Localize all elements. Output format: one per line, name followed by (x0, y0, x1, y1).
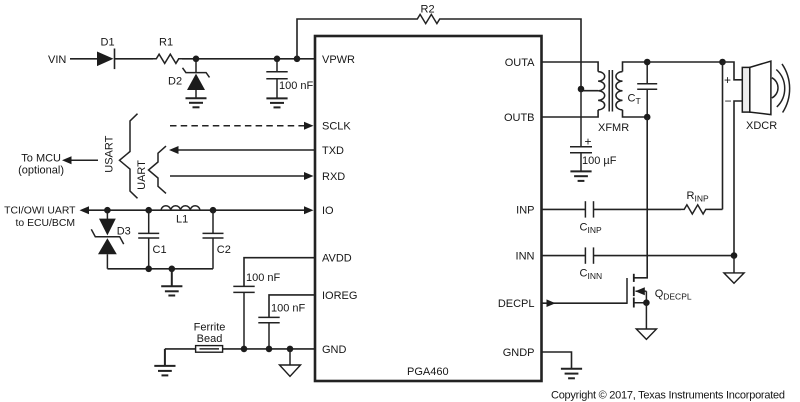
svg-text:VIN: VIN (48, 54, 66, 66)
wire transformer center tap (581, 90, 598, 92)
wire RXD (170, 175, 306, 177)
svg-text:100 nF: 100 nF (246, 272, 281, 284)
wire CINN to minus vertical (594, 255, 735, 257)
capacitor 100nF (AVDD) (233, 286, 254, 349)
capacitor CT (637, 62, 657, 117)
resistor RINP (681, 205, 709, 214)
brace UART (149, 146, 167, 193)
capacitor 100nF (VPWR) (266, 59, 287, 98)
wire CT bottom down to MOSFET drain (634, 117, 647, 278)
svg-text:R2: R2 (421, 4, 435, 16)
svg-text:C1: C1 (153, 244, 167, 256)
svg-text:PGA460: PGA460 (407, 366, 449, 378)
transducer XDCR (742, 61, 771, 115)
arrowhead IO right (304, 206, 314, 214)
ground arrow below INN node (724, 256, 744, 284)
wire To-MCU arrow (71, 159, 98, 161)
svg-text:C2: C2 (217, 244, 231, 256)
node junction CT top (644, 59, 651, 66)
svg-text:100 µF: 100 µF (582, 155, 617, 167)
TVS diode D3 (91, 210, 123, 269)
svg-text:D2: D2 (168, 76, 182, 88)
ground below VPWR 100nF (266, 98, 287, 107)
node junction ground tap (169, 266, 176, 273)
arrowhead IO left (80, 206, 90, 214)
arrowhead To MCU (62, 156, 72, 164)
svg-text:GNDP: GNDP (503, 347, 535, 359)
node junction VPWR riser (294, 56, 301, 63)
node junction INN/minus (731, 252, 738, 259)
arrowhead into SCLK (304, 122, 314, 130)
svg-text:+: + (724, 73, 731, 87)
ground below C1/C2 rail (161, 269, 182, 296)
node junction at R1/D2 (193, 56, 200, 63)
wire R1 to IC VPWR (182, 58, 315, 60)
wire CINP to RINP (594, 208, 682, 210)
svg-text:XDCR: XDCR (746, 120, 777, 132)
ground below 100uF (570, 171, 591, 181)
wire DECPL to gate (542, 302, 628, 304)
node junction 100nF (274, 56, 281, 63)
wire IOREG (269, 295, 315, 318)
wire plus node into XDCR (723, 62, 743, 80)
capacitor C2 (203, 210, 224, 269)
node junction D3 (104, 207, 111, 214)
wire D1 to R1 (115, 58, 154, 60)
wire RINP to plus vertical (709, 208, 723, 210)
wire INN to CINN (542, 255, 586, 257)
svg-text:100 nF: 100 nF (271, 303, 306, 315)
ground arrow below QDECPL source (636, 303, 656, 340)
wire GND rail (165, 348, 315, 350)
inductor L1 (161, 206, 200, 210)
svg-text:L1: L1 (176, 214, 188, 226)
node junction C1 (145, 207, 152, 214)
node junction center tap (578, 86, 585, 93)
svg-text:Ferrite: Ferrite (194, 322, 226, 334)
svg-text:XFMR: XFMR (598, 122, 629, 134)
wire secondary top to CT (623, 62, 648, 72)
svg-text:+: + (585, 135, 592, 149)
wire INP to CINP (542, 208, 586, 210)
svg-text:VPWR: VPWR (322, 54, 355, 66)
transistor QDECPL source/body tie (634, 291, 647, 303)
wire XDCR minus (734, 101, 742, 256)
arrowhead TXD (left) (169, 146, 179, 154)
svg-text:To MCU: To MCU (21, 152, 61, 164)
svg-text:IOREG: IOREG (322, 290, 357, 302)
node junction GND arrow tap (287, 346, 294, 353)
svg-text:SCLK: SCLK (322, 121, 351, 133)
wire bottom rail C1-C2 (107, 268, 213, 270)
svg-text:AVDD: AVDD (322, 253, 352, 265)
brace USART (120, 114, 138, 199)
capacitor 100nF (IOREG) (258, 317, 279, 349)
svg-text:INP: INP (516, 204, 534, 216)
ground left of ferrite bead (154, 349, 175, 376)
svg-text:−: − (725, 94, 732, 108)
node junction IOREG cap / GND rail (266, 346, 273, 353)
svg-text:100 nF: 100 nF (279, 80, 314, 92)
wire IO line (88, 209, 306, 211)
svg-text:to ECU/BCM: to ECU/BCM (16, 218, 75, 229)
zener diode D2 (183, 59, 210, 98)
capacitor CINN (585, 247, 593, 263)
svg-text:UART: UART (136, 160, 148, 190)
wire VPWR riser to top rail (297, 19, 414, 59)
wire plus node down to RINP (722, 62, 724, 209)
ground below D2 (186, 98, 207, 107)
capacitor C1 (138, 210, 159, 269)
node junction XDCR plus (719, 59, 726, 66)
svg-text:TXD: TXD (322, 145, 344, 157)
node junction AVDD cap / GND rail (241, 346, 248, 353)
svg-text:D1: D1 (101, 37, 115, 49)
svg-text:D3: D3 (117, 226, 131, 238)
arrowhead on DECPL wire (547, 299, 556, 307)
transistor QDECPL gate bar (626, 278, 628, 304)
svg-text:Bead: Bead (197, 333, 223, 345)
wire OUTB to transformer (542, 110, 599, 117)
wire GNDP (542, 352, 572, 368)
IC U1 PGA460 body (315, 36, 542, 381)
node junction C2 (210, 207, 217, 214)
svg-text:Copyright © 2017, Texas Instru: Copyright © 2017, Texas Instruments Inco… (551, 390, 785, 402)
ground below GNDP (561, 369, 582, 379)
wire secondary bottom to CT (623, 110, 648, 117)
svg-text:OUTA: OUTA (505, 57, 535, 69)
svg-text:INN: INN (516, 251, 535, 263)
diode D1 (97, 49, 115, 70)
transistor QDECPL body arrow (635, 287, 646, 295)
wire AVDD (244, 258, 315, 287)
wire TXD (178, 149, 315, 151)
transformer XFMR core (609, 70, 612, 112)
capacitor 100uF (polarized) (570, 89, 592, 171)
transformer XFMR secondary winding (616, 72, 623, 110)
svg-text:(optional): (optional) (18, 164, 64, 176)
dashed wire SCLK (170, 125, 306, 127)
svg-text:RXD: RXD (322, 171, 345, 183)
ground arrow below GND pin (280, 349, 301, 376)
transformer XFMR primary winding (598, 72, 605, 110)
svg-text:OUTB: OUTB (504, 112, 535, 124)
ferrite bead FB1 (196, 346, 223, 353)
svg-text:R1: R1 (159, 37, 173, 49)
svg-text:TCI/OWI UART: TCI/OWI UART (4, 206, 76, 217)
wire top rail to transformer tap (443, 19, 581, 89)
wire OUTA to transformer (542, 62, 599, 72)
transistor QDECPL channel segments (633, 274, 635, 308)
XDCR sound waves (772, 64, 790, 113)
resistor R2 (414, 14, 443, 23)
capacitor CINP (585, 201, 593, 217)
svg-text:DECPL: DECPL (498, 298, 535, 310)
node junction source (643, 299, 650, 306)
arrowhead into RXD (304, 172, 314, 180)
node junction C1 bottom (145, 266, 152, 273)
resistor R1 (153, 54, 182, 63)
svg-text:IO: IO (322, 205, 334, 217)
svg-text:GND: GND (322, 344, 347, 356)
wire CT top to XDCR plus node (647, 61, 722, 63)
svg-text:USART: USART (104, 135, 116, 172)
node junction CT bottom (644, 114, 651, 121)
wire VIN to D1 (70, 58, 97, 60)
